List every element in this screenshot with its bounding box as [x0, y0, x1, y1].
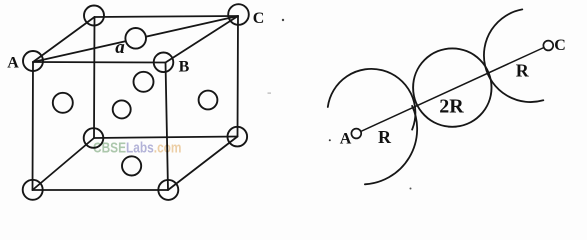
face-centre atom, top face (covers diagonal): [125, 28, 146, 49]
face-centre atom, bottom face: [122, 156, 141, 175]
wire: top front edge A-B: [33, 61, 166, 64]
wire: front right edge B-brf: [166, 63, 169, 191]
face-centre atom, left face: [53, 93, 73, 113]
speck: [282, 19, 284, 21]
corner atom B (front top-right): [154, 53, 174, 73]
wire: edge B-C: [166, 16, 239, 63]
node dot C: [543, 41, 553, 51]
face-centre atom, front face: [113, 100, 131, 118]
wire: edge A-blt: [33, 17, 95, 62]
wire: edge brf-brb: [168, 137, 238, 191]
wire: face diagonal A-C: [33, 16, 238, 62]
corner-atom arc at C: [484, 9, 543, 102]
wire: front bottom edge: [33, 189, 169, 191]
wire: back right edge C-brb: [237, 16, 240, 137]
face-centre atom, back face: [134, 72, 154, 92]
corner-atom arc at A (lower sweep): [365, 106, 417, 184]
corner atom back-top-left: [84, 6, 104, 26]
corner atom C (back top-right): [228, 4, 249, 25]
node dot A: [351, 129, 361, 139]
corner-atom arc at A (upper): [328, 69, 416, 130]
corner atom front bottom-left: [23, 180, 43, 200]
stray dot: [329, 139, 331, 141]
wire: back left edge blt-blb: [93, 17, 96, 138]
corner atom back bottom-right: [228, 127, 248, 147]
wire: back bottom edge blb-brb: [94, 137, 238, 139]
speck: [268, 93, 272, 94]
wire: edge blf-blb: [33, 138, 95, 190]
speck: [410, 188, 412, 190]
wire: diagonal line A-C: [356, 46, 548, 134]
corner atom back bottom-left: [84, 128, 104, 148]
wire: front left edge A-blf: [32, 62, 35, 190]
face-centre atom, right face: [199, 91, 218, 110]
corner atom A (front top-left): [23, 51, 43, 71]
face-centre atom circle 2R: [413, 48, 491, 126]
corner atom front bottom-right: [158, 180, 178, 200]
wire: top back edge blt-C: [95, 16, 239, 17]
svg-text:CBSELabs.com: CBSELabs.com: [93, 139, 182, 155]
